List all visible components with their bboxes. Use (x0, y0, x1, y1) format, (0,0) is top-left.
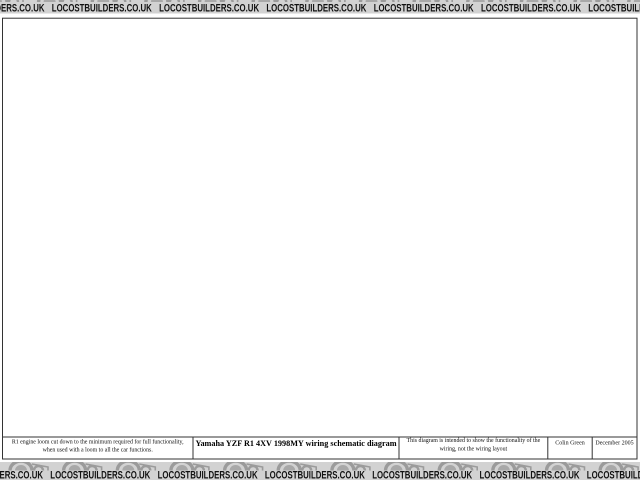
svg-text:R1 engine loom cut down to the: R1 engine loom cut down to the minimum r… (12, 439, 184, 446)
svg-text:when used with a loom to all t: when used with a loom to all the car fun… (43, 447, 154, 454)
svg-text:Colin Green: Colin Green (555, 441, 585, 447)
svg-text:LOCOSTBUILDERS.CO.UK: LOCOSTBUILDERS.CO.UK (587, 470, 640, 480)
svg-text:LOCOSTBUILDERS.CO.UK: LOCOSTBUILDERS.CO.UK (159, 2, 259, 14)
svg-text:LOCOSTBUILDERS.CO.UK: LOCOSTBUILDERS.CO.UK (374, 2, 474, 14)
svg-text:wiring, not the wiring layout: wiring, not the wiring layout (440, 446, 508, 452)
svg-text:Yamaha YZF R1 4XV 1998MY wirin: Yamaha YZF R1 4XV 1998MY wiring schemati… (195, 439, 396, 448)
svg-text:LOCOSTBUILDERS.CO.UK: LOCOSTBUILDERS.CO.UK (0, 470, 43, 480)
svg-text:December 2005: December 2005 (595, 441, 633, 447)
svg-text:LOCOSTBUILDERS.CO.UK: LOCOSTBUILDERS.CO.UK (265, 470, 365, 480)
svg-text:LOCOSTBUILDERS.CO.UK: LOCOSTBUILDERS.CO.UK (158, 470, 258, 480)
svg-text:LOCOSTBUILDERS.CO.UK: LOCOSTBUILDERS.CO.UK (372, 470, 472, 480)
title block (3, 437, 638, 459)
svg-text:LOCOSTBUILDERS.CO.UK: LOCOSTBUILDERS.CO.UK (588, 2, 640, 14)
svg-text:LOCOSTBUILDERS.CO.UK: LOCOSTBUILDERS.CO.UK (50, 470, 150, 480)
svg-text:LOCOSTBUILDERS.CO.UK: LOCOSTBUILDERS.CO.UK (52, 2, 152, 14)
svg-text:LOCOSTBUILDERS.CO.UK: LOCOSTBUILDERS.CO.UK (0, 2, 45, 14)
svg-text:This diagram is intended to sh: This diagram is intended to show the fun… (407, 437, 541, 444)
svg-text:LOCOSTBUILDERS.CO.UK: LOCOSTBUILDERS.CO.UK (266, 2, 366, 14)
svg-text:LOCOSTBUILDERS.CO.UK: LOCOSTBUILDERS.CO.UK (481, 2, 581, 14)
svg-text:LOCOSTBUILDERS.CO.UK: LOCOSTBUILDERS.CO.UK (480, 470, 580, 480)
